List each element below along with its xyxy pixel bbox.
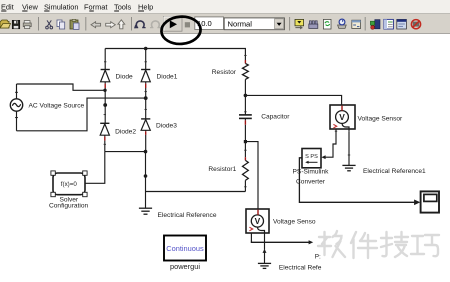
toolbar icon: refresh page [323, 19, 331, 29]
svg-text:Voltage Senso: Voltage Senso [273, 219, 316, 226]
watermark 软件技巧 (hand-drawn strokes) [318, 231, 439, 258]
svg-text:Diode2: Diode2 [115, 128, 136, 135]
toolbar strip [0, 13, 450, 33]
svg-text:Simulation: Simulation [44, 2, 79, 11]
wire rail to solver configuration [85, 152, 105, 184]
wire bridge left column [104, 90, 106, 123]
scope block [421, 191, 439, 212]
diode D3 (Diode3) [141, 119, 150, 152]
toolbar icon: update diagram [338, 19, 347, 28]
capacitor C (Capacitor) [239, 95, 252, 141]
PS-Simulink converter U3 [302, 149, 321, 168]
toolbar icon: print [23, 21, 31, 29]
wire U1 output to PS-Simulink converter [323, 131, 336, 157]
toolbar icon: stop (disabled) [185, 22, 190, 27]
svg-text:Resistor1: Resistor1 [208, 166, 236, 173]
toolbar icon: library browser [370, 20, 380, 30]
toolbar icon: highlight off [411, 20, 420, 29]
toolbar icon: undo [134, 21, 146, 29]
dangling signal wire from U2 [251, 241, 309, 243]
wire source+ to bridge node A [17, 84, 106, 90]
diode D2 (Diode2) [100, 123, 109, 151]
toolbar combo: Normal [224, 18, 284, 30]
wire U1 to ground [348, 132, 350, 165]
svg-text:powergui: powergui [170, 262, 200, 271]
port tick marks [104, 55, 351, 186]
ground Electrical Reference [139, 208, 152, 214]
svg-text:Diode1: Diode1 [157, 74, 178, 81]
svg-text:Diode3: Diode3 [156, 123, 177, 130]
toolbar icon: open [0, 20, 11, 28]
svg-text:P:: P: [315, 253, 321, 260]
toolbar field: sim stop time 10.0 [195, 17, 224, 30]
wire node to voltage sensor U1 [245, 95, 341, 105]
svg-text:View: View [22, 2, 39, 11]
toolbar icon: model explorer [384, 19, 394, 29]
powergui block [164, 236, 206, 261]
svg-text:Electrical Refe: Electrical Refe [279, 264, 322, 271]
svg-text:V: V [255, 216, 261, 226]
svg-text:Edit: Edit [1, 2, 14, 11]
junction node dots [103, 47, 247, 178]
toolbar icon: up [118, 20, 125, 29]
voltage sensor U1 (Voltage Sensor) [330, 105, 355, 132]
wire ground column [145, 152, 147, 208]
svg-text:Resistor: Resistor [212, 69, 237, 76]
ellipse annotation [160, 15, 201, 45]
svg-text:Tools: Tools [114, 2, 132, 11]
toolbar icon: debug window [352, 20, 361, 28]
toolbar icon: build [309, 21, 318, 29]
resistor R1 (Resistor1) [242, 142, 248, 192]
wire resistor1 to ground column [146, 191, 246, 193]
wire converter output to scope [299, 158, 414, 203]
bridge bottom rail wire [105, 151, 146, 153]
ground Electrical Reference2 [258, 263, 271, 268]
svg-text:S PS: S PS [305, 154, 318, 160]
diode D (Diode) [101, 49, 110, 91]
toolbar icon: copy [57, 20, 65, 29]
svg-text:Converter: Converter [296, 178, 326, 185]
wire U2 to ground [264, 249, 266, 263]
menu bar [0, 0, 450, 13]
toolbar icon: save [12, 20, 20, 29]
svg-text:V: V [339, 112, 345, 122]
toolbar icon: forward [106, 22, 116, 28]
svg-text:Format: Format [84, 2, 107, 11]
svg-text:AC Voltage Source: AC Voltage Source [29, 103, 85, 110]
toolbar icon: cut [46, 20, 53, 29]
ground Electrical Reference1 [342, 165, 355, 170]
svg-text:Continuous: Continuous [166, 244, 204, 253]
svg-text:Configuration: Configuration [49, 202, 89, 209]
svg-text:Normal: Normal [228, 19, 253, 28]
svg-text:Electrical Reference: Electrical Reference [158, 212, 217, 219]
svg-text:Capacitor: Capacitor [261, 114, 290, 121]
wire source- to bridge node B [17, 98, 146, 131]
svg-text:Voltage Sensor: Voltage Sensor [358, 115, 404, 122]
toolbar icon: back [91, 22, 101, 28]
voltage sensor U2 (Voltage Senso) [246, 209, 269, 249]
AC voltage source V1 [10, 84, 22, 131]
svg-text:Diode: Diode [116, 74, 134, 81]
resistor R (Resistor) [242, 60, 248, 95]
svg-text:Electrical Reference1: Electrical Reference1 [363, 168, 426, 175]
svg-text:Help: Help [138, 2, 153, 11]
toolbar button: play [164, 17, 182, 32]
toolbar icon: redo (disabled) [150, 21, 161, 28]
wire capacitor node to voltage sensor U2 [245, 142, 258, 209]
toolbar icon: simulink window [397, 19, 407, 29]
toolbar icon: paste [70, 19, 79, 29]
solver configuration block [51, 171, 87, 197]
svg-text:f(x)=0: f(x)=0 [61, 181, 78, 188]
diode D1 (Diode1) [141, 49, 150, 99]
svg-text:PS-Simulink: PS-Simulink [293, 168, 330, 175]
wire bridge right column [145, 98, 147, 119]
top rail wire [105, 49, 245, 61]
toolbar icon: connect [295, 19, 304, 29]
